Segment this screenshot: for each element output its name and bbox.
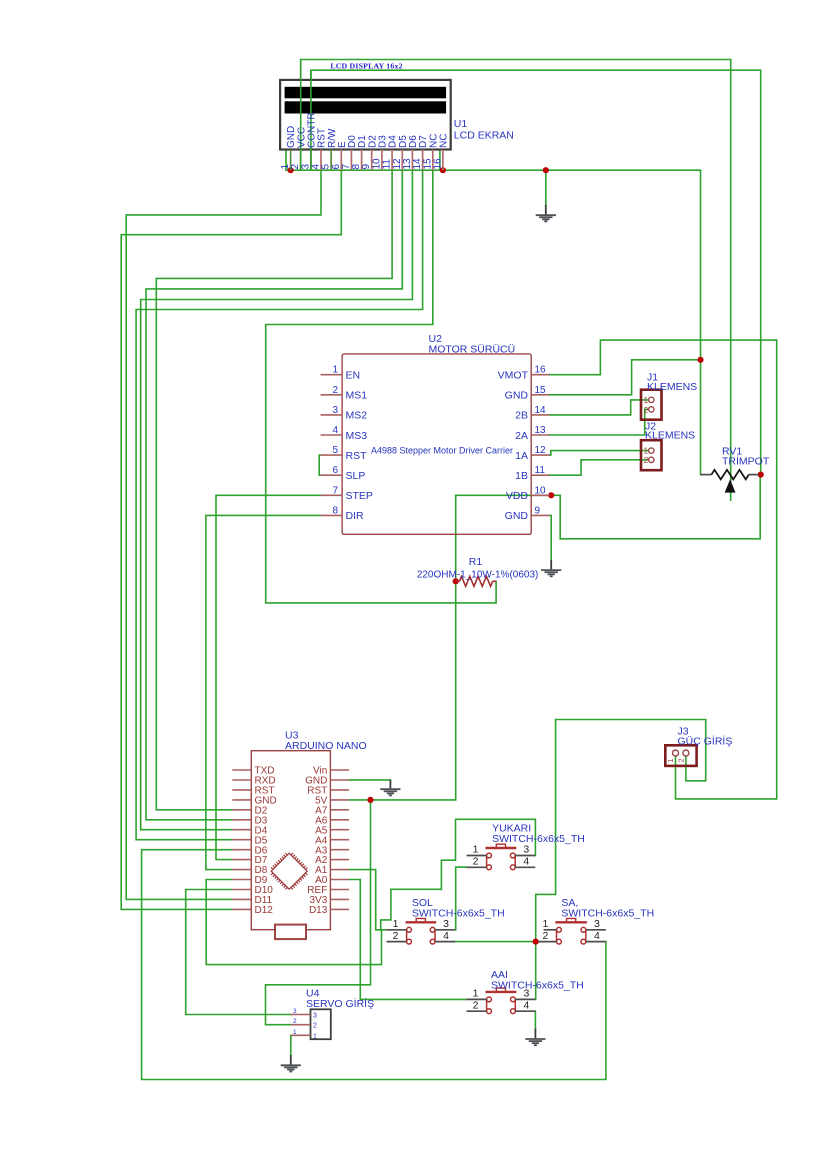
lcd U1 pin numbers bbox=[280, 158, 443, 170]
wire Arduino GND right to ground bbox=[349, 779, 390, 781]
svg-text:MOTOR SÜRÜCÜ: MOTOR SÜRÜCÜ bbox=[429, 344, 516, 356]
svg-text:3: 3 bbox=[443, 918, 449, 930]
svg-text:LCD EKRAN: LCD EKRAN bbox=[454, 130, 514, 142]
svg-text:1: 1 bbox=[644, 395, 649, 405]
wire LCD internal GND rail bbox=[286, 119, 440, 170]
wire Arduino D9 to SOL pin1 junction bbox=[206, 880, 381, 965]
svg-text:3: 3 bbox=[293, 1008, 297, 1015]
wire U4 pin1 to ground bbox=[290, 1035, 292, 1055]
svg-text:13: 13 bbox=[535, 425, 547, 436]
svg-text:U1: U1 bbox=[454, 118, 468, 130]
U3 chip diamond icon bbox=[271, 853, 307, 889]
U2 left pin names bbox=[346, 370, 373, 523]
svg-text:2: 2 bbox=[676, 758, 685, 762]
svg-text:1: 1 bbox=[473, 844, 479, 856]
svg-text:4: 4 bbox=[523, 856, 529, 868]
svg-text:2: 2 bbox=[473, 999, 479, 1011]
svg-text:1: 1 bbox=[644, 446, 649, 456]
wire Arduino D6 to bottom rail and SA pin4 bbox=[142, 850, 606, 1080]
wire SOL pin4 to junction bbox=[455, 941, 536, 943]
junction dot Arduino 5V pin bbox=[367, 797, 373, 803]
wire YUKARI pin2 to SOL pin3 bbox=[456, 867, 466, 930]
wire U2 2A to J1 pin2 bbox=[550, 409, 649, 435]
ground symbol at U2 GND9 bbox=[541, 560, 561, 577]
junction dot LCD pin16 bbox=[440, 167, 446, 173]
svg-text:STEP: STEP bbox=[346, 490, 373, 502]
svg-text:MS1: MS1 bbox=[346, 390, 368, 402]
wire YUKARI pin3 staircase to SOL pin1 bbox=[381, 819, 536, 930]
U2 left pin numbers bbox=[332, 365, 338, 517]
U2 left pin stubs 1-8 bbox=[321, 375, 343, 516]
U3 left pin stubs bbox=[232, 770, 251, 909]
svg-text:GND: GND bbox=[505, 390, 529, 402]
wire Arduino 5V to servo power U4 pin2 bbox=[266, 800, 371, 1025]
svg-text:MS3: MS3 bbox=[346, 430, 368, 442]
svg-text:NC: NC bbox=[439, 134, 450, 148]
resistor R1 bbox=[456, 576, 496, 586]
svg-text:2: 2 bbox=[644, 455, 649, 465]
wire LCD pin14 D7 to Arduino D5 bbox=[136, 170, 423, 840]
junction dot GND rail ground drop bbox=[543, 167, 549, 173]
svg-text:14: 14 bbox=[535, 405, 547, 416]
svg-text:2: 2 bbox=[644, 405, 649, 415]
svg-text:2: 2 bbox=[332, 385, 338, 396]
connector J1 KLEMENS bbox=[641, 390, 662, 420]
svg-text:1: 1 bbox=[393, 918, 399, 930]
switch YUKARI SWITCH-6x6x5_TH bbox=[467, 844, 536, 870]
ground symbol at Arduino GND right bbox=[380, 780, 400, 796]
wire LCD pin15 to R1 right terminal bbox=[266, 170, 496, 603]
svg-text:11: 11 bbox=[535, 465, 546, 476]
svg-text:3: 3 bbox=[523, 844, 529, 856]
wire J3 pin2 chain to SA pin2 and AAI pin3 bbox=[536, 720, 706, 1000]
svg-text:SWITCH-6x6x5_TH: SWITCH-6x6x5_TH bbox=[491, 980, 584, 992]
svg-text:2: 2 bbox=[393, 930, 399, 942]
svg-text:2: 2 bbox=[542, 930, 548, 942]
wire U2 VMOT to J3 pin1 bbox=[550, 340, 777, 799]
svg-text:SWITCH-6x6x5_TH: SWITCH-6x6x5_TH bbox=[492, 833, 585, 845]
ground symbol below U4 pin1 bbox=[281, 1055, 301, 1072]
wire U2 DIR to Arduino D8 bbox=[206, 515, 321, 869]
svg-text:SWITCH-6x6x5_TH: SWITCH-6x6x5_TH bbox=[561, 907, 654, 919]
potentiometer RV1 trimpot bbox=[701, 470, 760, 493]
svg-text:12: 12 bbox=[535, 445, 547, 456]
svg-text:1B: 1B bbox=[515, 470, 528, 482]
svg-text:SWITCH-6x6x5_TH: SWITCH-6x6x5_TH bbox=[412, 907, 505, 919]
svg-text:ARDUINO NANO: ARDUINO NANO bbox=[285, 740, 367, 752]
svg-text:1A: 1A bbox=[515, 450, 528, 462]
svg-text:1: 1 bbox=[332, 365, 338, 376]
connector J3 power input bbox=[665, 745, 696, 766]
svg-text:RST: RST bbox=[346, 450, 368, 462]
connector U4 servo input bbox=[291, 1008, 331, 1040]
svg-text:220OHM-1_10W-1%(0603): 220OHM-1_10W-1%(0603) bbox=[417, 570, 539, 581]
wire AAI pin4 to ground bbox=[534, 1011, 536, 1029]
svg-text:1: 1 bbox=[473, 988, 479, 1000]
svg-text:D12: D12 bbox=[255, 905, 274, 916]
svg-text:1: 1 bbox=[542, 918, 548, 930]
wire LCD pin11 D4 to Arduino D2 bbox=[156, 170, 392, 810]
U2 right pin numbers bbox=[535, 365, 547, 517]
svg-text:3: 3 bbox=[313, 1013, 317, 1020]
junction dot SOL pin4 / SA pin2 net bbox=[533, 939, 539, 945]
junction dot R1 left terminal bbox=[453, 578, 459, 584]
lcd U1 body bbox=[280, 80, 451, 150]
switch SOL SWITCH-6x6x5_TH bbox=[387, 918, 456, 944]
svg-text:2: 2 bbox=[293, 1018, 297, 1025]
svg-text:4: 4 bbox=[523, 999, 529, 1011]
svg-text:4: 4 bbox=[332, 425, 338, 436]
op-amp U3 Arduino Nano body bbox=[251, 751, 330, 930]
wire U2 GND9 to ground bbox=[550, 515, 552, 560]
svg-text:LCD DISPLAY 16x2: LCD DISPLAY 16x2 bbox=[330, 62, 402, 71]
switch SA SWITCH-6x6x5_TH bbox=[538, 918, 606, 944]
U2 right pin names bbox=[498, 370, 529, 523]
svg-text:5: 5 bbox=[332, 445, 338, 456]
svg-text:8: 8 bbox=[332, 505, 338, 516]
svg-text:4: 4 bbox=[594, 930, 600, 942]
op-amp U2 motor driver body bbox=[342, 354, 531, 534]
wire Arduino A1 to SOL pin1 bbox=[349, 870, 386, 930]
svg-text:2B: 2B bbox=[515, 410, 528, 422]
wire LCD pin5 R/W riser to internal rail bbox=[330, 119, 332, 170]
svg-text:MS2: MS2 bbox=[346, 410, 368, 422]
wire U2 2B to J1 pin1 bbox=[550, 400, 649, 415]
svg-text:7: 7 bbox=[332, 485, 338, 496]
svg-text:2A: 2A bbox=[515, 430, 528, 442]
junction dot trimpot right terminal bbox=[758, 472, 764, 478]
wire LCD pin2 VCC to trimpot wiper bbox=[301, 60, 731, 501]
wire GND rail from LCD pin1 to right bbox=[286, 169, 701, 171]
svg-text:TRİMPOT: TRİMPOT bbox=[722, 455, 770, 468]
svg-text:16: 16 bbox=[535, 365, 547, 376]
svg-text:2: 2 bbox=[473, 856, 479, 868]
U2 right pin stubs 16-9 bbox=[531, 375, 549, 516]
U3 right pin stubs bbox=[330, 770, 349, 909]
wire LCD pin4 RST to Arduino D11 bbox=[126, 170, 321, 899]
wire LCD pin12 D5 to Arduino D3 bbox=[146, 170, 402, 820]
svg-text:9: 9 bbox=[535, 505, 541, 516]
wire VCC/CONTR risers over LCD body bbox=[301, 60, 311, 171]
connector J2 KLEMENS bbox=[641, 440, 662, 470]
wire rail ground drop bbox=[545, 170, 547, 205]
wire overlays on LCD pins 1,2,3,5 bbox=[291, 150, 332, 171]
svg-text:3: 3 bbox=[332, 405, 338, 416]
wire U2 GND15 to GND rail junction bbox=[550, 360, 701, 395]
svg-text:1: 1 bbox=[293, 1029, 297, 1036]
svg-text:SERVO GİRİŞ: SERVO GİRİŞ bbox=[306, 997, 374, 1010]
svg-text:KLEMENS: KLEMENS bbox=[647, 381, 697, 393]
svg-text:DIR: DIR bbox=[346, 510, 365, 522]
wire VDD vertical through R1 left to Arduino 5V row bbox=[349, 495, 456, 800]
ground symbol below AAI pin4 bbox=[525, 1029, 545, 1046]
svg-text:15: 15 bbox=[535, 385, 547, 396]
svg-text:VDD: VDD bbox=[506, 490, 529, 502]
ground symbol near LCD rail bbox=[536, 205, 556, 222]
svg-text:GND: GND bbox=[505, 510, 529, 522]
lcd U1 pins 1-16 bbox=[291, 150, 443, 171]
svg-text:R1: R1 bbox=[469, 556, 483, 568]
U3 left pin names bbox=[255, 766, 277, 916]
svg-text:D13: D13 bbox=[309, 905, 328, 916]
svg-text:10: 10 bbox=[535, 485, 547, 496]
U3 right pin names bbox=[305, 766, 328, 916]
svg-text:VMOT: VMOT bbox=[498, 370, 529, 382]
wire LCD pin3 CONTR to trimpot right bbox=[311, 70, 761, 474]
wire LCD pin6 E to Arduino D12 bbox=[121, 170, 341, 909]
junction dot U2 VDD pin bbox=[548, 492, 554, 498]
junction dot LCD pin1 GND bbox=[288, 167, 294, 173]
svg-text:3: 3 bbox=[594, 918, 600, 930]
svg-text:16: 16 bbox=[432, 158, 443, 170]
wire GND rail vertical down to junction and trimpot left bbox=[700, 170, 702, 474]
wire Arduino D10 to U4 servo pin3 bbox=[186, 890, 291, 1015]
svg-text:SLP: SLP bbox=[346, 470, 366, 482]
wire RST-SLP loop on U2 bbox=[319, 455, 320, 475]
wire Arduino A0 to AAI pin1 bbox=[349, 880, 466, 1000]
svg-text:1: 1 bbox=[666, 758, 675, 762]
wire U2 STEP to Arduino D7 bbox=[216, 495, 321, 859]
svg-text:4: 4 bbox=[443, 930, 449, 942]
wire LCD pin13 D6 to Arduino D4 bbox=[141, 170, 413, 830]
U3 USB connector rectangle bbox=[275, 925, 306, 940]
switch AAI SWITCH-6x6x5_TH bbox=[467, 988, 536, 1014]
wire U2 1B to J2 pin2 bbox=[550, 460, 649, 475]
svg-text:GÜÇ GİRİŞ: GÜÇ GİRİŞ bbox=[678, 735, 733, 748]
wire U2 VDD net to trimpot right bbox=[456, 475, 761, 539]
svg-text:A4988 Stepper Motor Driver Car: A4988 Stepper Motor Driver Carrier bbox=[371, 446, 513, 456]
lcd U1 pin labels bbox=[286, 112, 449, 148]
svg-text:1: 1 bbox=[313, 1033, 317, 1040]
wire U2 1A to J2 pin1 bbox=[550, 451, 649, 456]
svg-text:KLEMENS: KLEMENS bbox=[645, 430, 695, 442]
svg-text:2: 2 bbox=[313, 1023, 317, 1030]
junction dot GND rail / U2 GND15 bbox=[697, 357, 703, 363]
svg-text:EN: EN bbox=[346, 370, 361, 382]
svg-text:6: 6 bbox=[332, 465, 338, 476]
